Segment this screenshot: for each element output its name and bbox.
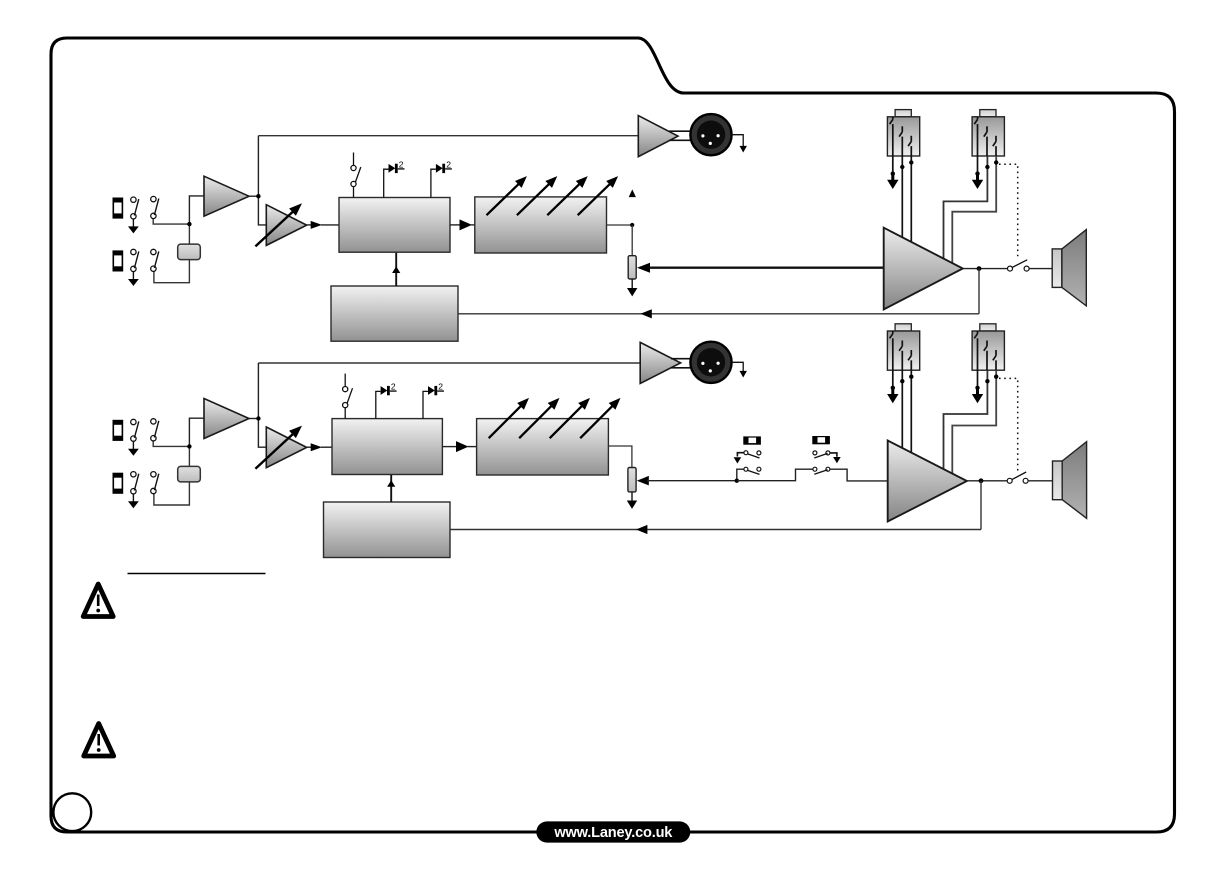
jack contact 3 ch2 xyxy=(993,350,996,370)
wire: ch2 switch to speaker xyxy=(1028,480,1052,482)
buffer amp triangle ch1 xyxy=(204,176,249,216)
wire: ch2 line to footswitch2 xyxy=(737,469,813,481)
wire: ch1 spkjack1 contact3 to power amp xyxy=(909,156,913,242)
volume control diagonal arrow ch2 xyxy=(255,426,302,469)
wire: ch1 EQ out to master node xyxy=(607,224,633,226)
power amp triangle ch2 xyxy=(888,441,967,522)
input jack 2 icon ch1 xyxy=(113,250,124,271)
wire: ch1 mix junction up to buffer amp xyxy=(189,196,204,224)
jack contact 1 ch2 xyxy=(890,331,893,370)
wire: ch1 pad box to input jack2 switch xyxy=(154,260,190,283)
node: ch1 master volume node xyxy=(630,223,634,227)
volume control diagonal arrow ch1 xyxy=(255,203,302,246)
wire: ch2 spkjack1 contact3 to power amp xyxy=(909,370,913,452)
jack contact 3 ch1 xyxy=(908,136,911,156)
ground arrow input jack1 ch1 xyxy=(128,219,139,233)
master volume pot ch1 xyxy=(628,256,636,279)
ground arrow input jack1 ch2 xyxy=(128,441,139,455)
node: ch1 buffer output junction xyxy=(256,194,260,198)
DI amp triangle ch1 xyxy=(638,116,678,157)
pad/mix box ch2 xyxy=(178,466,201,482)
preamp block ch2 xyxy=(332,419,442,475)
wire: ch1 DI feed line xyxy=(258,135,638,137)
jack contact 2 ch2 xyxy=(899,341,902,371)
wire: ch1 node down to master pot xyxy=(631,225,633,256)
jack contact 2 ch1 xyxy=(984,126,987,156)
EQ slider arrow 1 ch1 xyxy=(487,176,527,215)
input jack 2 icon ch2 xyxy=(113,473,124,494)
DI amp triangle ch2 xyxy=(640,342,680,383)
input jack 1 switch a ch2 xyxy=(131,419,139,441)
arrow: ch1 FX block to preamp xyxy=(392,253,400,286)
svg-text:2: 2 xyxy=(438,382,443,392)
footswitch 1 lower contacts ch2 xyxy=(744,467,761,474)
wire: ch2 spkjack1 tip to ground xyxy=(887,370,898,403)
buffer amp triangle ch2 xyxy=(204,399,249,439)
jack contact 1 ch1 xyxy=(890,117,893,156)
svg-text:2: 2 xyxy=(391,382,396,392)
jack contact 1 ch1 xyxy=(974,117,977,156)
DI connection lines ch1 xyxy=(669,131,692,140)
input jack 1 icon ch2 xyxy=(113,420,124,441)
wire: ch1 buffer amp output to node xyxy=(249,195,258,197)
wire: ch2 input jack1 switch to mix junction xyxy=(153,441,189,446)
dotted actuator link ch2 xyxy=(999,378,1018,471)
ground arrow after XLR ch2 xyxy=(732,362,747,377)
wire: ch1 output down to feedback xyxy=(978,269,980,314)
arrow: ch2 FX block to preamp xyxy=(387,475,395,502)
footswitch 1 ground elbow ch2 xyxy=(734,453,744,464)
wire: ch1 feedback line into FX block xyxy=(458,309,979,318)
input jack 2 switch b ch1 xyxy=(151,249,159,271)
FX loop block ch1 xyxy=(331,286,458,341)
input jack 1 switch a ch1 xyxy=(131,197,139,219)
EQ slider arrow 3 ch2 xyxy=(550,398,590,438)
wire: ch1 mix junction down to pad box xyxy=(188,224,190,244)
underline rule xyxy=(128,573,266,575)
EQ slider arrow 1 ch2 xyxy=(489,398,529,438)
node: footswitch1 junction ch2 xyxy=(735,479,739,483)
jack contact 3 ch2 xyxy=(908,350,911,370)
pad/mix box ch1 xyxy=(178,244,201,260)
wire: ch2 spkjack2 tip to ground xyxy=(972,370,983,403)
speaker jack socket body ch1 xyxy=(887,110,919,156)
pot wiper arrow + wire to power amp ch1 xyxy=(637,263,884,273)
speaker mute switch ch1 xyxy=(1008,260,1030,271)
node: ch2 buffer output junction xyxy=(256,416,260,420)
power amp triangle ch1 xyxy=(884,228,963,310)
wire: ch2 mix junction up to buffer amp xyxy=(189,418,204,446)
speaker jack socket body ch1 xyxy=(972,110,1004,156)
warning triangle 1 xyxy=(83,584,113,617)
node: ch1 output junction xyxy=(977,266,982,271)
wire: ch1 spkjack2 contact3 elbow to amp xyxy=(952,156,998,263)
input jack 1 switch b ch2 xyxy=(151,419,159,441)
EQ slider arrow 4 ch1 xyxy=(578,176,618,215)
LED 1 ch1 xyxy=(384,159,405,197)
wire: ch2 amp out to switch xyxy=(967,480,1007,482)
wire: ch1 node down to volume amp xyxy=(258,196,266,225)
bright switch above preamp ch2 xyxy=(343,374,353,419)
jack contact 3 ch1 xyxy=(993,136,996,156)
EQ block ch2 xyxy=(477,419,609,475)
input jack 2 switch b ch2 xyxy=(151,472,159,494)
wire: ch2 mix junction down to pad box xyxy=(188,446,190,466)
wire: ch2 buffer amp output to node xyxy=(249,418,258,420)
wire: ch1 spkjack1 contact2 to power amp xyxy=(900,156,904,237)
node: ch2 output junction xyxy=(979,478,984,483)
wire: ch1 input jack1 switch to mix junction xyxy=(153,219,189,224)
dotted actuator link ch1 xyxy=(999,164,1018,258)
wire: ch1 spkjack2 tip to ground xyxy=(972,156,983,189)
volume amp triangle ch2 xyxy=(266,427,306,468)
footswitch 2 icon ch2 xyxy=(812,436,830,444)
footswitch 2 upper contacts ch2 xyxy=(813,451,830,458)
wire: ch1 spkjack2 contact2 elbow to amp xyxy=(944,156,990,258)
speaker mute switch ch2 xyxy=(1007,472,1028,483)
ground arrow after XLR ch1 xyxy=(732,135,747,153)
input jack 1 switch b ch1 xyxy=(151,196,159,218)
footswitch 1 upper contacts ch2 xyxy=(744,451,761,458)
node: ch1 input mix junction xyxy=(187,222,191,226)
node: ch2 input mix junction xyxy=(187,444,191,448)
wire: ch2 spkjack2 contact3 elbow to amp xyxy=(952,370,998,473)
EQ slider arrow 4 ch2 xyxy=(580,398,620,438)
LED 1 ch2 xyxy=(376,382,397,419)
wire: ch1 node up to DI line xyxy=(257,136,259,197)
svg-text:2: 2 xyxy=(399,159,404,169)
wire: ch2 spkjack1 contact2 to power amp xyxy=(900,370,904,448)
warning triangle 2 xyxy=(84,724,114,757)
svg-text:2: 2 xyxy=(446,159,451,169)
jack contact 2 ch1 xyxy=(899,126,902,156)
corner punch hole xyxy=(53,793,91,831)
footswitch 2 ground elbow ch2 xyxy=(830,453,841,463)
speaker jack socket body ch2 xyxy=(887,324,919,370)
wire: ch2 output down to feedback xyxy=(980,481,982,530)
XLR DI socket ch2 xyxy=(690,342,731,383)
wire: footswitch2 to power amp ch2 xyxy=(830,469,888,481)
ground arrow below pot ch2 xyxy=(627,492,637,509)
wire: ch2 DI feed line xyxy=(258,362,640,364)
LED 2 ch2 xyxy=(423,382,444,419)
input jack 2 switch a ch2 xyxy=(131,472,139,494)
input jack 2 switch a ch1 xyxy=(131,249,139,271)
wire: ch2 feedback line into FX block xyxy=(450,525,981,534)
DI connection lines ch2 xyxy=(671,359,693,368)
wire+arrow: ch1 preamp to EQ xyxy=(450,219,475,230)
wire: footswitch1 to line junction ch2 xyxy=(737,469,744,481)
jack contact 1 ch2 xyxy=(974,331,977,370)
ground arrow below pot ch1 xyxy=(627,279,637,296)
EQ slider arrow 2 ch2 xyxy=(519,398,559,438)
wire: ch2 spkjack2 contact2 elbow to amp xyxy=(944,370,990,469)
wire: ch1 switch to speaker xyxy=(1029,268,1052,270)
ground arrow input jack2 ch2 xyxy=(128,494,139,508)
svg-text:www.Laney.co.uk: www.Laney.co.uk xyxy=(553,825,673,841)
wire: ch2 pad box to input jack2 switch xyxy=(154,482,190,505)
speaker jack socket body ch2 xyxy=(972,324,1004,370)
ground arrow input jack2 ch1 xyxy=(128,272,139,286)
footswitch 2 lower contacts ch2 xyxy=(813,467,830,474)
speaker ch2 xyxy=(1053,442,1087,519)
pot wiper arrow + wire to footswitch line ch2 xyxy=(637,476,737,486)
master volume pot ch2 xyxy=(628,468,636,492)
wire: ch2 node down to volume amp xyxy=(258,419,266,448)
EQ block ch1 xyxy=(475,197,607,253)
wire: ch1 spkjack1 tip to ground xyxy=(887,156,898,189)
wire: ch2 EQ out to master pot xyxy=(608,446,632,468)
LED 2 ch1 xyxy=(431,159,452,197)
input jack 1 icon ch1 xyxy=(113,198,124,219)
wire+arrow: ch2 volume to preamp block xyxy=(307,443,332,451)
EQ slider arrow 3 ch1 xyxy=(547,176,587,215)
wire+arrow: ch2 preamp to EQ xyxy=(442,441,476,452)
bright switch above preamp ch1 xyxy=(351,153,361,198)
volume amp triangle ch1 xyxy=(266,205,306,246)
wire: ch2 node up to DI line xyxy=(257,363,259,419)
indicator triangle above master pot ch1 xyxy=(629,189,636,197)
footswitch 1 icon ch2 xyxy=(743,436,761,444)
EQ slider arrow 2 ch1 xyxy=(517,176,557,215)
XLR DI socket ch1 xyxy=(690,114,731,155)
FX loop block ch2 xyxy=(324,502,451,558)
speaker ch1 xyxy=(1052,230,1086,306)
wire: ch1 amp out to switch xyxy=(963,268,1008,270)
jack contact 2 ch2 xyxy=(984,341,987,371)
wire+arrow: ch1 volume to preamp block xyxy=(307,221,339,229)
www.Laney.co.uk badge xyxy=(536,821,690,842)
preamp block ch1 xyxy=(339,198,450,253)
